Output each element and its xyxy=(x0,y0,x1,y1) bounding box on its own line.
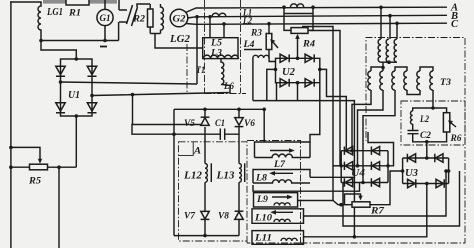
junction field wire xyxy=(195,15,199,19)
enclosure gen unit dash-dot xyxy=(187,0,246,94)
winding L7 xyxy=(263,109,265,142)
svg-text:R7: R7 xyxy=(370,207,386,217)
winding L8 xyxy=(253,170,310,184)
svg-text:U1: U1 xyxy=(68,90,80,101)
wire bottom of G1 row xyxy=(41,22,119,59)
svg-text:L8: L8 xyxy=(255,174,267,184)
svg-text:L9: L9 xyxy=(256,195,268,205)
svg-text:V7: V7 xyxy=(184,212,196,222)
svg-text:R6: R6 xyxy=(450,134,462,144)
svg-text:G1: G1 xyxy=(100,13,111,23)
diodes U3 top row xyxy=(407,154,443,162)
svg-text:LG1: LG1 xyxy=(46,7,63,18)
svg-text:V6: V6 xyxy=(244,119,255,129)
svg-text:A: A xyxy=(193,147,201,157)
phase line C xyxy=(186,23,448,24)
generator G1 xyxy=(97,0,113,41)
svg-text:L10: L10 xyxy=(254,214,272,224)
minus sign xyxy=(100,46,107,48)
wire L9 to R7 junction xyxy=(298,201,341,205)
wire phase drops to T3 xyxy=(379,6,383,10)
wire L10 to U3 right tap xyxy=(304,171,449,216)
svg-text:L7: L7 xyxy=(273,160,286,170)
inductor L13 xyxy=(239,163,245,182)
svg-text:U4: U4 xyxy=(351,168,365,179)
transformer box L5 L3 xyxy=(203,38,239,59)
wire T3 secondary staircase to U4 xyxy=(352,90,395,183)
diode U1 top-right xyxy=(87,66,96,76)
svg-text:L2: L2 xyxy=(242,16,252,26)
svg-text:C2: C2 xyxy=(420,131,431,141)
halftone band top (scan remnant) xyxy=(43,0,67,4)
tank circuit loop xyxy=(413,90,447,142)
transformer T3 secondary coils xyxy=(368,62,433,94)
rectifier bridge U4 xyxy=(341,151,388,183)
svg-text:T1: T1 xyxy=(196,66,205,76)
diode U2 top-right xyxy=(305,54,314,62)
wire U1 bottom down xyxy=(75,116,77,167)
wire top-left xyxy=(11,1,41,3)
svg-text:L4: L4 xyxy=(242,40,254,50)
inductor L12 xyxy=(205,163,211,182)
resistor R6 xyxy=(443,113,449,132)
svg-text:L2: L2 xyxy=(419,115,429,125)
capacitor C1 xyxy=(220,129,224,140)
wire L7 return to U2 xyxy=(310,83,320,142)
wire R7 to U3 left tap xyxy=(370,171,403,205)
wire U3 top center to L2C2 xyxy=(426,142,428,158)
generator G2 xyxy=(170,9,188,27)
svg-text:V5: V5 xyxy=(184,119,195,129)
wire U2 bottom center down to L8 xyxy=(296,81,300,85)
diode U1 bottom-left xyxy=(56,103,65,113)
enclosure amplifier unit dash-dot xyxy=(247,38,465,244)
CT tap wires xyxy=(208,15,212,19)
resistor R7 xyxy=(339,203,343,207)
phase line B xyxy=(187,15,447,18)
svg-text:R4: R4 xyxy=(302,40,315,50)
diode U1 bottom-right xyxy=(87,103,96,113)
capacitor C2 xyxy=(408,131,419,134)
resistor R4 shunt xyxy=(284,7,313,30)
diode V6 xyxy=(238,109,240,163)
diode V7 xyxy=(204,182,206,235)
wire U2 top center to R4 wiper xyxy=(296,57,300,61)
inductor LG1 xyxy=(38,2,41,41)
node A block label corner xyxy=(179,142,194,156)
svg-text:R2: R2 xyxy=(132,15,145,25)
svg-text:C: C xyxy=(451,19,458,30)
transformer T1 winding L6 xyxy=(221,59,230,86)
svg-text:R3: R3 xyxy=(250,29,262,39)
wire U1 left tap to field vertical xyxy=(59,80,63,84)
wire U4 bottom bus to U3 right xyxy=(343,171,460,226)
wire left rail xyxy=(10,2,12,248)
resistor R2 xyxy=(148,9,154,27)
diode U2 bottom-right xyxy=(305,79,314,87)
enclosure L2 C2 R6 dash-dot xyxy=(401,101,465,145)
inductor L2 xyxy=(411,111,413,124)
winding L11 xyxy=(252,231,304,245)
svg-text:R5: R5 xyxy=(28,177,41,187)
rectifier bridge U2 xyxy=(276,58,320,82)
diodes U3 bottom row xyxy=(408,179,445,187)
resistor R3 xyxy=(267,22,271,26)
wire bypass left xyxy=(173,109,175,235)
svg-text:L6: L6 xyxy=(223,82,234,92)
rectifier bridge U1 xyxy=(61,59,93,116)
wire L8 to U2 bottom link xyxy=(310,176,354,178)
svg-text:L13: L13 xyxy=(215,171,234,182)
resistor R1 xyxy=(66,0,89,5)
svg-text:L12: L12 xyxy=(183,171,203,182)
wire bottom bus of block A xyxy=(174,235,239,237)
reactor L2 humps on line B xyxy=(212,13,226,16)
svg-text:V8: V8 xyxy=(218,212,229,222)
diode V5 xyxy=(204,109,206,163)
diode V8 xyxy=(238,182,240,235)
diode U2 bottom-left xyxy=(280,79,289,87)
wire U4 left tap from above and down to R7 xyxy=(339,164,343,168)
wire U2 right tap down to U4 feed xyxy=(318,68,322,72)
svg-text:R1: R1 xyxy=(68,9,81,19)
wire L8 return bus xyxy=(253,183,360,191)
diode U1 top-left xyxy=(56,66,65,76)
svg-text:C1: C1 xyxy=(215,119,225,129)
diode U2 top-left xyxy=(280,54,289,62)
wire top bus of block A xyxy=(174,108,264,110)
wire U1 right tap to T1/L6 xyxy=(90,94,94,98)
svg-text:T3: T3 xyxy=(440,78,451,88)
wire feed jog to block A xyxy=(132,125,205,135)
reactor L1 humps on line A xyxy=(291,4,304,7)
wire L11 to U3 bottom xyxy=(304,184,427,237)
winding L9 xyxy=(254,193,298,207)
svg-text:L5: L5 xyxy=(210,39,222,49)
enclosure block A dash-dot xyxy=(179,142,248,241)
brush contact symbol xyxy=(119,0,150,26)
winding L10 xyxy=(252,209,304,224)
wire U2 left tap to L4 xyxy=(274,68,278,72)
potentiometer R5 xyxy=(9,146,13,150)
svg-text:LG2: LG2 xyxy=(169,34,190,45)
diodes U4 right column xyxy=(371,147,379,187)
transformer T3 primary coils xyxy=(378,39,397,62)
phase line A xyxy=(186,7,448,24)
svg-text:G2: G2 xyxy=(173,14,187,24)
rectifier bridge U3 xyxy=(403,158,449,184)
svg-text:U3: U3 xyxy=(405,168,418,179)
inductor LG2 field coil xyxy=(150,4,203,48)
wire branch down xyxy=(57,165,61,169)
svg-text:L3: L3 xyxy=(210,49,222,59)
svg-text:L11: L11 xyxy=(254,234,272,244)
svg-text:U2: U2 xyxy=(282,67,295,78)
wire U4 right tap xyxy=(386,164,390,168)
diodes U4 left column xyxy=(344,147,352,187)
